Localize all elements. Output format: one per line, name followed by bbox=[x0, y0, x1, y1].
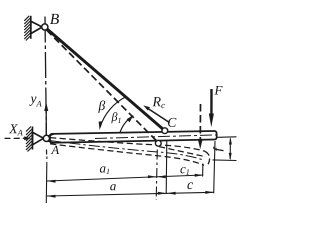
pin circle C bbox=[162, 128, 168, 134]
pin support triangle at B bbox=[31, 21, 42, 33]
angle arc beta (beam to rod BC) with arrow at beam end bbox=[100, 97, 127, 128]
label A bbox=[51, 146, 59, 154]
deformed beam dashed top edge bbox=[50, 138, 205, 152]
label a bbox=[110, 184, 116, 190]
wall at A bbox=[26, 127, 33, 152]
label R_c bbox=[152, 97, 165, 108]
pin support triangle at A bbox=[33, 132, 44, 145]
dashed rod B-C' (deformed) bbox=[47, 30, 159, 142]
vertical dash-dot axis line A-B bbox=[45, 17, 46, 139]
force F arrow (solid) bbox=[209, 89, 214, 127]
pin circle B bbox=[42, 24, 48, 30]
R_c reaction arrow along rod bbox=[143, 105, 169, 122]
force F dashed line (deformed position) bbox=[198, 104, 202, 149]
label F bbox=[214, 86, 222, 95]
label beta1 bbox=[111, 112, 120, 123]
deformed beam centerline dash-dot bbox=[50, 141, 204, 161]
extension dash-dot below C' bbox=[156, 150, 157, 201]
beam (straight bar) bbox=[47, 131, 217, 143]
deformed beam end cap bbox=[205, 151, 210, 165]
pin circle A bbox=[43, 135, 49, 141]
axis dash below A bbox=[46, 150, 48, 155]
deformed beam dashed bottom edge bbox=[50, 144, 204, 166]
label B bbox=[50, 14, 59, 24]
label C bbox=[168, 118, 176, 127]
extension line below A bbox=[45, 157, 48, 204]
beam centerline dash-dot bbox=[95, 135, 217, 139]
label c1 bbox=[180, 167, 189, 175]
angle arc beta1 (beam to dashed rod) with arrow at top bbox=[120, 116, 133, 133]
extension below beam right end bbox=[214, 141, 215, 193]
label beta bbox=[98, 100, 105, 112]
label y_A bbox=[29, 97, 41, 107]
extension below C bbox=[165, 140, 168, 194]
f dimension (right side) bbox=[213, 137, 237, 161]
label a1 bbox=[100, 166, 109, 174]
deformed beam dashed lower edge segment bbox=[159, 147, 206, 157]
dimension chain a / c bbox=[47, 192, 214, 196]
wall at B bbox=[24, 16, 31, 41]
dashed force extension below deformed beam bbox=[202, 164, 204, 177]
label f (rotated) bbox=[213, 147, 223, 151]
X_A dashed line with arrow bbox=[5, 136, 31, 140]
pin circle C' (deformed) bbox=[155, 140, 161, 146]
label X_A bbox=[9, 124, 23, 135]
y_A axis arrow bbox=[44, 102, 48, 136]
label c bbox=[187, 182, 193, 189]
dimension chain a1 / c1 bbox=[47, 175, 203, 181]
rod BC (thick) bbox=[47, 29, 165, 131]
